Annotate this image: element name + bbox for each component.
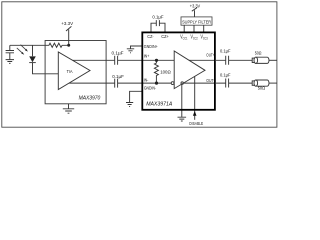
wire: OUT+ row bbox=[189, 59, 215, 61]
svg-text:0.1µF: 0.1µF bbox=[112, 50, 124, 55]
transmission line 50ohm bottom bbox=[252, 80, 269, 86]
wire: OUT+ to border bbox=[269, 59, 277, 61]
limiting amp triangle bbox=[174, 51, 205, 89]
resistor R filter (zigzag) bbox=[45, 43, 69, 47]
svg-text:CZ+: CZ+ bbox=[161, 34, 169, 39]
svg-text:CZ-: CZ- bbox=[147, 34, 154, 39]
supply tick (left) bbox=[66, 26, 71, 31]
wire: +3.3V to supply filter bbox=[194, 10, 196, 17]
wire: GNDIN- pin to ground bbox=[130, 91, 142, 102]
supply filter box bbox=[181, 17, 212, 25]
svg-text:IN-: IN- bbox=[144, 77, 149, 82]
wire: IN- row bbox=[142, 82, 171, 84]
wire: TIA OUT- bbox=[69, 82, 115, 84]
border frame bbox=[2, 2, 277, 127]
svg-text:0.1µF: 0.1µF bbox=[220, 48, 231, 53]
capacitor 0.1uF CZ bbox=[156, 20, 159, 26]
supply tick (right) bbox=[192, 8, 197, 12]
wire: amp gnd pin down bbox=[181, 84, 183, 117]
wire: photodiode cathode stub bbox=[32, 45, 34, 56]
resistor 100 ohm vertical bbox=[154, 60, 158, 83]
capacitor 0.1uF coupling bottom bbox=[115, 79, 142, 88]
light arrow 2 bbox=[17, 48, 23, 54]
wire: +3.3V supply into left box bbox=[68, 30, 70, 46]
svg-text:TIA: TIA bbox=[67, 69, 73, 74]
photodiode cathode bar bbox=[29, 62, 36, 64]
svg-text:GNDIN+: GNDIN+ bbox=[144, 44, 158, 49]
junction node: R/VCC (left box) bbox=[67, 44, 70, 47]
svg-text:MAX3971A: MAX3971A bbox=[146, 102, 173, 108]
DISABLE arrow head bbox=[193, 111, 197, 116]
svg-text:0.1µF: 0.1µF bbox=[152, 15, 164, 20]
capacitor 0.1uF OUT+ bbox=[215, 56, 252, 65]
capacitor 0.1uF coupling top bbox=[115, 56, 142, 65]
transmission line 50ohm top bbox=[252, 57, 269, 63]
svg-text:0.1µF: 0.1µF bbox=[220, 72, 231, 77]
capacitor bypass (far left) bbox=[6, 45, 14, 59]
IC box MAX3971A (thick) bbox=[142, 32, 215, 109]
svg-text:SUPPLY FILTER: SUPPLY FILTER bbox=[182, 19, 212, 24]
wire: left box ground pin bbox=[68, 104, 70, 109]
wire: photodiode bias rail bbox=[10, 44, 45, 46]
light arrow 1 bbox=[21, 45, 27, 51]
svg-text:50Ω: 50Ω bbox=[258, 86, 266, 91]
wire: CZ- pin stub bbox=[151, 23, 156, 32]
wire: DISABLE vertical bbox=[194, 76, 196, 120]
svg-text:IN+: IN+ bbox=[144, 53, 150, 58]
wire: TIA OUT+ bbox=[73, 59, 115, 61]
capacitor 0.1uF OUT- bbox=[215, 79, 252, 88]
svg-text:+3.3V: +3.3V bbox=[61, 21, 74, 26]
svg-text:+3.3V: +3.3V bbox=[190, 4, 200, 9]
svg-text:OUT-: OUT- bbox=[206, 78, 215, 83]
slant junction circle (gnd terminal) bbox=[181, 82, 183, 84]
svg-text:100Ω: 100Ω bbox=[160, 70, 171, 75]
ground (GNDIN+) bbox=[127, 49, 134, 53]
wire: IN+ row bbox=[142, 59, 174, 61]
wire: VCC1 stub bbox=[183, 25, 185, 32]
wire: VCC3 stub bbox=[203, 25, 205, 32]
wire: OUT- row bbox=[184, 82, 215, 84]
op-amp TIA triangle bbox=[58, 52, 90, 90]
ground (left box) bbox=[63, 109, 74, 113]
svg-text:GNDIN-: GNDIN- bbox=[144, 85, 157, 90]
wire: OUT- to border bbox=[269, 82, 277, 84]
photodiode body bbox=[29, 56, 36, 62]
wire: CZ+ pin stub bbox=[159, 23, 165, 32]
input bubble IN- bbox=[171, 82, 174, 85]
ground (GNDIN-) bbox=[126, 103, 133, 107]
wire: VCC2 stub bbox=[193, 25, 195, 32]
ground (far left cap) bbox=[6, 60, 14, 64]
IC box MAX3970 bbox=[45, 41, 106, 104]
ground (right box) bbox=[178, 117, 187, 121]
wire: photodiode anode to TIA input bbox=[33, 63, 59, 74]
svg-text:0.1µF: 0.1µF bbox=[112, 74, 124, 79]
svg-text:DISABLE: DISABLE bbox=[189, 121, 203, 126]
svg-text:OUT+: OUT+ bbox=[206, 53, 215, 58]
wire: GNDIN+ pin to ground bbox=[131, 46, 143, 49]
svg-text:MAX3970: MAX3970 bbox=[79, 95, 101, 101]
junction node: IN- bbox=[155, 82, 158, 85]
svg-text:50Ω: 50Ω bbox=[255, 50, 262, 55]
junction node: IN+ bbox=[155, 59, 158, 62]
